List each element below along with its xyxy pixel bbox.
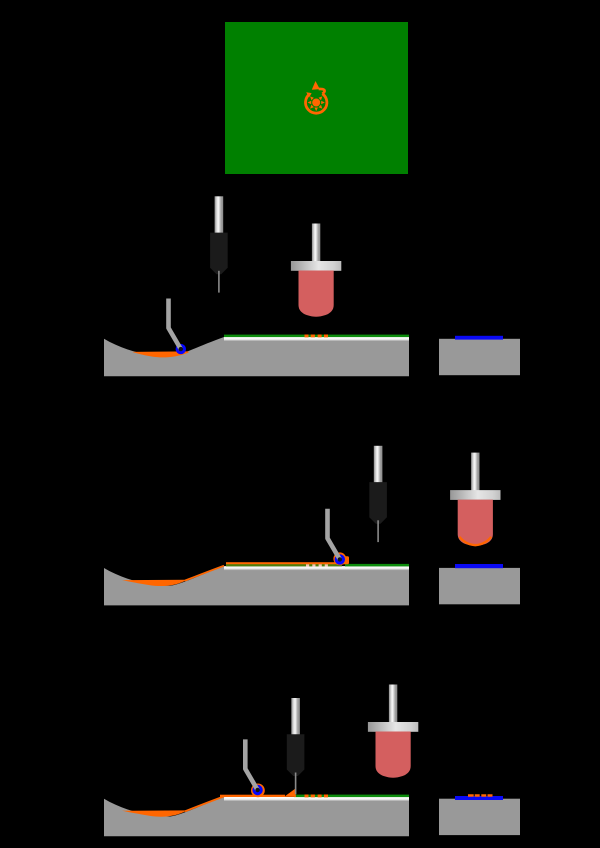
substrate block scene2: [439, 568, 520, 604]
fresh ink line on plate scene3: [220, 795, 285, 797]
commons animation icon: center disc: [312, 99, 320, 107]
commons animation icon: radial arrows: [308, 96, 325, 111]
doctor ring tool scene3: [245, 739, 262, 795]
tampon pad scene3: [368, 685, 418, 778]
substrate blue coating scene1: [455, 336, 503, 340]
ink lining in well scene3: [122, 796, 224, 816]
doctor ring tool scene1: [169, 299, 187, 355]
ink envelope around ring scene3: [251, 784, 265, 798]
plate green coating scene1: [224, 335, 409, 338]
plate green coating right scene2: [345, 564, 409, 567]
ink film on plate scene2: [226, 562, 342, 564]
substrate block scene3: [439, 799, 520, 835]
plate coating under ink scene2: [226, 564, 342, 567]
substrate blue coating scene3: [455, 796, 503, 800]
cliche plate scene2: [104, 566, 409, 605]
substrate blue coating scene2: [455, 564, 503, 568]
ink dispenser pen scene1: [210, 196, 228, 292]
commons animation icon: left arc flare: [306, 92, 311, 97]
plate top highlight scene1: [224, 337, 409, 341]
substrate block scene1: [439, 339, 520, 375]
ink-filled etched cells scene3: [305, 795, 329, 798]
ink dispenser pen scene2: [369, 446, 387, 542]
ink lining in well scene2: [122, 566, 224, 586]
commons animation icon: curl to arrow: [319, 89, 325, 94]
tampon pad scene2: [450, 453, 500, 546]
green animation placeholder box: [225, 22, 408, 174]
ink dispenser pen scene3: [287, 698, 305, 794]
ink on pad bottom scene2: [460, 537, 492, 545]
ink envelope around ring scene2: [333, 552, 346, 565]
emptied etched cells scene2: [306, 564, 328, 566]
ink-filled etched cells scene1: [305, 335, 329, 338]
printed ink dashes scene3: [468, 794, 493, 797]
doctor ring tool scene2: [328, 509, 346, 565]
plate green coating scene3: [294, 795, 409, 798]
plate top highlight scene2: [224, 566, 409, 570]
plate top highlight scene3: [224, 797, 409, 801]
tampon pad scene1: [291, 224, 341, 317]
cliche plate scene3: [104, 797, 409, 836]
commons animation icon: arrowhead: [312, 81, 320, 90]
ink pool in well scene1: [132, 351, 189, 357]
commons animation icon: ring arc: [306, 94, 327, 113]
dispensed ink mound scene3: [284, 789, 296, 797]
cliche plate scene1: [104, 337, 409, 376]
